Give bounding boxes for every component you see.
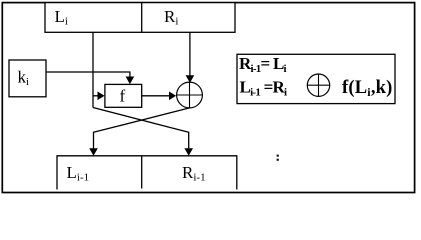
svg-text:Li-1 =Ri: Li-1 =Ri [240, 78, 288, 99]
svg-text:f(Li,k): f(Li,k) [342, 78, 393, 99]
svg-text:Li-1: Li-1 [67, 163, 90, 184]
svg-text:Ri-1= Li: Ri-1= Li [239, 54, 287, 75]
svg-text:Ri-1: Ri-1 [182, 163, 206, 184]
svg-text:f: f [120, 87, 126, 106]
